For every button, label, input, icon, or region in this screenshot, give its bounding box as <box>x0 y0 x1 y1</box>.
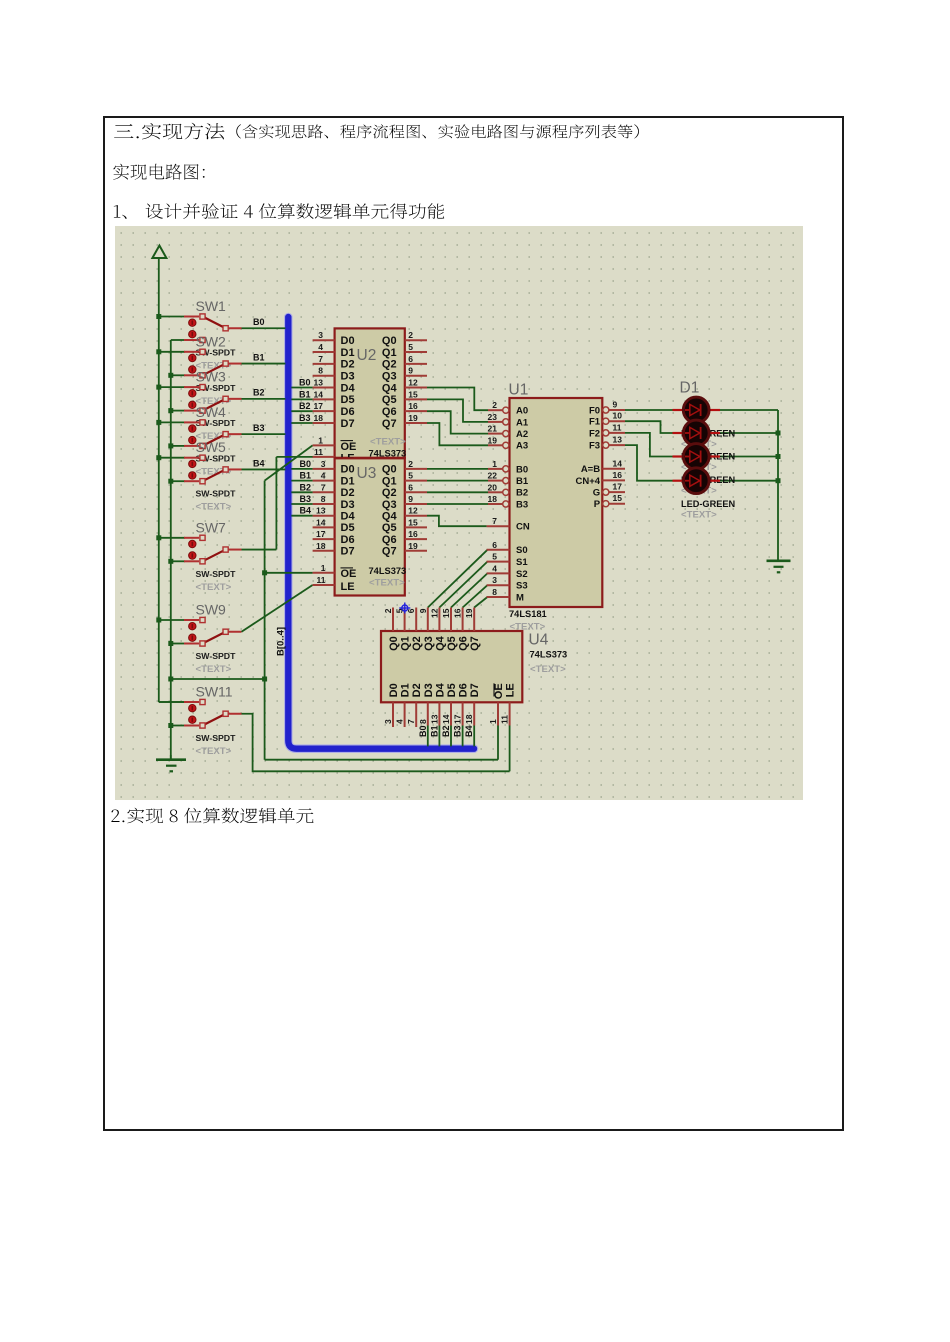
svg-text:1: 1 <box>321 563 326 573</box>
pin U2 D6 (pin 17) <box>313 410 335 412</box>
svg-text:D4: D4 <box>341 382 356 394</box>
pin U1 P (pin 15) <box>603 501 625 507</box>
pin U4 D6 (pin 17) <box>462 702 464 725</box>
svg-text:17: 17 <box>316 529 326 539</box>
junction LED rail row4 <box>776 478 781 483</box>
svg-text:D1: D1 <box>341 347 355 359</box>
pin U4 D7 (pin 18) <box>473 702 475 725</box>
svg-text:B2: B2 <box>253 388 265 398</box>
svg-text:LE: LE <box>505 683 517 697</box>
pin U4 D1 (pin 4) <box>404 702 406 727</box>
pin U2 D4 (pin 13) <box>313 387 335 389</box>
switch SW7 SW-SPDT <box>184 535 242 564</box>
svg-text:D5: D5 <box>446 683 458 697</box>
wire SW1 pole to bus net B0 <box>242 327 286 329</box>
switch SW2 SW-SPDT <box>184 349 242 378</box>
led D1.1 LED-GREEN <box>673 397 721 423</box>
svg-text:5: 5 <box>408 471 413 481</box>
pin U3 Q0 (pin 2) <box>405 468 427 470</box>
svg-text:<TEXT>: <TEXT> <box>196 664 232 675</box>
pin U1 B3 (pin 18) <box>488 501 509 507</box>
svg-text:M: M <box>516 592 524 603</box>
wire U2 LE horizontal <box>276 456 313 458</box>
svg-text:<TEXT>: <TEXT> <box>681 510 717 521</box>
svg-text:B0: B0 <box>299 459 311 469</box>
svg-text:2: 2 <box>492 400 497 410</box>
pin U1 B2 (pin 20) <box>488 489 509 495</box>
wire OE net vertical <box>264 481 266 760</box>
wire OE net to U4 OE <box>265 759 498 761</box>
latch U3 74LS373 body <box>335 458 405 595</box>
svg-text:6: 6 <box>408 354 413 364</box>
svg-text:G: G <box>593 488 600 499</box>
svg-text:Q6: Q6 <box>382 406 397 418</box>
pin U1 G (pin 17) <box>603 489 625 495</box>
wire U1 S0 diagonal to U4 Q3 <box>428 550 488 608</box>
svg-text:13: 13 <box>314 378 324 388</box>
svg-text:SW-SPDT: SW-SPDT <box>196 569 237 579</box>
switch SW1 SW-SPDT <box>184 314 242 343</box>
wire rail A tap to SW1 top throw <box>159 316 185 318</box>
wire OE net diagonal from U2 OE <box>265 445 313 480</box>
pin U3 D4 (pin 13) <box>313 515 335 517</box>
svg-text:Q4: Q4 <box>434 635 446 651</box>
svg-text:A3: A3 <box>516 441 528 452</box>
svg-text:F2: F2 <box>589 428 600 439</box>
svg-text:D2: D2 <box>411 683 423 697</box>
svg-text:19: 19 <box>488 435 498 445</box>
svg-text:S1: S1 <box>516 557 528 568</box>
svg-text:6: 6 <box>408 482 413 492</box>
svg-text:11: 11 <box>314 447 323 457</box>
wire U1 M diagonal to U4 Q7 <box>474 597 487 608</box>
svg-text:<TEXT>: <TEXT> <box>196 502 232 513</box>
bus B[0..4] <box>288 317 474 749</box>
svg-text:13: 13 <box>316 506 326 516</box>
svg-text:9: 9 <box>418 608 428 613</box>
svg-text:14: 14 <box>314 389 324 399</box>
svg-text:2: 2 <box>408 330 413 340</box>
wire bus branch B3 to U3 D3 <box>291 503 312 505</box>
pin U3 Q6 (pin 16) <box>405 538 427 540</box>
svg-text:17: 17 <box>453 714 463 724</box>
svg-text:A2: A2 <box>516 429 528 440</box>
pin U2 D1 (pin 4) <box>313 351 335 353</box>
pin U3 D5 (pin 14) <box>313 526 335 528</box>
svg-text:8: 8 <box>418 719 428 724</box>
svg-text:12: 12 <box>429 608 439 618</box>
svg-text:4: 4 <box>321 471 326 481</box>
svg-text:9: 9 <box>408 366 413 376</box>
svg-text:14: 14 <box>316 517 326 527</box>
led D1.2 LED-GREEN <box>673 420 721 446</box>
svg-text:3: 3 <box>492 575 497 585</box>
svg-text:F0: F0 <box>589 405 600 416</box>
svg-text:SW1: SW1 <box>196 298 227 314</box>
svg-text:5: 5 <box>408 342 413 352</box>
pin U1 S3 (pin 3) <box>487 584 510 586</box>
wire SW7 pole to U2 LE net <box>242 549 277 551</box>
svg-text:2: 2 <box>408 459 413 469</box>
pin U1 F2 (pin 11) <box>603 430 625 436</box>
wire rail A vertical <box>158 258 160 702</box>
pin U1 S1 (pin 5) <box>487 561 510 563</box>
pin U1 M (pin 8) <box>487 596 510 598</box>
pin U3 Q5 (pin 15) <box>405 526 427 528</box>
svg-text:Q1: Q1 <box>382 475 397 487</box>
wire rail A to SW11 <box>159 701 199 703</box>
svg-text:SW11: SW11 <box>196 684 233 700</box>
wire bus branch B0 to U3 D0 <box>291 468 312 470</box>
svg-text:LE: LE <box>341 581 355 593</box>
pin U4 Q6 (pin 16) <box>462 608 464 632</box>
pin U1 F3 (pin 13) <box>603 442 625 448</box>
svg-text:D7: D7 <box>469 683 481 697</box>
table cell border <box>103 116 844 1131</box>
wire rail A tap to SW5 top throw <box>159 457 185 459</box>
svg-text:9: 9 <box>408 494 413 504</box>
svg-text:S0: S0 <box>516 545 528 556</box>
pin U3 D2 (pin 7) <box>313 491 335 493</box>
svg-text:19: 19 <box>408 413 418 423</box>
svg-text:Q6: Q6 <box>458 636 470 651</box>
text line 2: 实现电路图： <box>113 164 204 180</box>
svg-text:Q0: Q0 <box>388 636 400 651</box>
latch U4 74LS373 body (rotated) <box>381 631 522 702</box>
led D1.3 LED-GREEN <box>673 444 721 470</box>
svg-text:Q2: Q2 <box>411 636 423 651</box>
svg-text:A1: A1 <box>516 417 529 428</box>
pin U2 Q5 (pin 15) <box>405 398 427 400</box>
svg-text:11: 11 <box>613 422 622 432</box>
svg-text:B0: B0 <box>253 317 265 327</box>
wire U1 F0 to LED D1.1 <box>625 409 673 411</box>
wire SW4 pole to bus net B3 <box>242 433 286 435</box>
svg-text:D6: D6 <box>458 683 470 697</box>
pin U4 LE (pin 11) <box>509 702 511 725</box>
svg-text:Q3: Q3 <box>382 370 397 382</box>
pin U2 LE (pin 11) <box>313 456 335 458</box>
svg-text:16: 16 <box>613 470 623 480</box>
pin U2 Q3 (pin 9) <box>405 375 427 377</box>
wire rail A tap to SW7 top throw <box>159 537 185 539</box>
pin U3 OE (pin 1) <box>313 572 335 574</box>
wire U1 S2 diagonal to U4 Q5 <box>451 573 487 607</box>
svg-text:11: 11 <box>317 575 326 585</box>
svg-text:13: 13 <box>613 435 623 445</box>
svg-text:7: 7 <box>321 482 326 492</box>
svg-text:1: 1 <box>318 435 323 445</box>
junction rail B OE tie <box>168 677 173 682</box>
svg-text:B3: B3 <box>299 413 311 423</box>
svg-text:SW3: SW3 <box>196 369 227 385</box>
svg-text:Q1: Q1 <box>382 347 397 359</box>
svg-text:D0: D0 <box>388 683 400 697</box>
svg-text:CN+4: CN+4 <box>576 476 601 487</box>
pin U2 D0 (pin 3) <box>313 339 335 341</box>
svg-text:S3: S3 <box>516 581 528 592</box>
pin U1 B0 (pin 1) <box>488 466 509 472</box>
pin U1 A3 (pin 19) <box>488 442 509 448</box>
pin U4 Q1 (pin 5) <box>404 608 406 632</box>
svg-text:D5: D5 <box>341 394 355 406</box>
power arrow symbol <box>152 246 166 259</box>
wire rail B tap to SW5 bottom throw <box>171 480 185 482</box>
svg-text:<TEXT>: <TEXT> <box>196 582 232 593</box>
svg-text:F3: F3 <box>589 441 600 452</box>
pin U4 D0 (pin 3) <box>392 702 394 727</box>
svg-text:B4: B4 <box>253 458 265 468</box>
svg-text:19: 19 <box>408 541 418 551</box>
pin U2 Q0 (pin 2) <box>405 339 427 341</box>
svg-text:B2: B2 <box>441 725 451 737</box>
svg-text:8: 8 <box>492 587 497 597</box>
pin U2 D7 (pin 18) <box>313 422 335 424</box>
wire U2 Q5 to U1 A1 <box>427 399 488 422</box>
wire rail B tap to SW2 bottom throw <box>171 374 185 376</box>
svg-text:18: 18 <box>316 541 326 551</box>
svg-text:F1: F1 <box>589 417 601 428</box>
svg-text:D6: D6 <box>341 534 355 546</box>
svg-text:D5: D5 <box>341 522 355 534</box>
pin U4 D3 (pin 8) <box>427 702 429 725</box>
svg-text:CN: CN <box>516 522 530 533</box>
pin U3 D6 (pin 17) <box>313 538 335 540</box>
wire U1 S3 diagonal to U4 Q6 <box>463 585 488 607</box>
wire U3 Q2 to U1 B2 <box>427 491 488 493</box>
pin U1 S0 (pin 6) <box>487 549 510 551</box>
svg-text:Q1: Q1 <box>400 636 412 651</box>
pin U1 CN (pin 7) <box>487 525 510 527</box>
svg-text:SW-SPDT: SW-SPDT <box>196 651 237 661</box>
svg-text:B[0..4]: B[0..4] <box>276 627 287 656</box>
svg-text:Q5: Q5 <box>446 636 458 651</box>
pin U1 B1 (pin 22) <box>488 478 509 484</box>
pin U4 D5 (pin 14) <box>450 702 452 725</box>
switch SW3 SW-SPDT <box>184 385 242 414</box>
pin U2 D3 (pin 8) <box>313 375 335 377</box>
wire U3 Q1 to U1 B1 <box>427 480 488 482</box>
svg-text:14: 14 <box>613 458 623 468</box>
pin U3 D7 (pin 18) <box>313 550 335 552</box>
svg-text:18: 18 <box>464 714 474 724</box>
pin U1 F0 (pin 9) <box>603 407 625 413</box>
switch SW9 SW-SPDT <box>184 617 242 646</box>
svg-text:Q3: Q3 <box>382 499 397 511</box>
wire rail B tap to SW1 bottom throw <box>171 339 185 341</box>
svg-text:<TEXT>: <TEXT> <box>196 746 232 757</box>
latch U2 74LS373 body <box>335 328 405 457</box>
svg-text:Q0: Q0 <box>382 335 397 347</box>
svg-text:16: 16 <box>453 608 463 618</box>
svg-text:A0: A0 <box>516 406 528 417</box>
led D1.4 LED-GREEN <box>673 468 721 494</box>
svg-text:B2: B2 <box>516 488 528 499</box>
svg-text:74LS373: 74LS373 <box>369 566 407 576</box>
svg-text:7: 7 <box>492 516 497 526</box>
svg-text:13: 13 <box>429 714 439 724</box>
svg-text:3: 3 <box>383 719 393 724</box>
svg-text:D7: D7 <box>341 418 355 430</box>
pin U4 Q7 (pin 19) <box>473 608 475 632</box>
wire SW11 pole jog to U4 LE <box>242 714 510 772</box>
svg-text:12: 12 <box>408 378 418 388</box>
svg-text:18: 18 <box>488 494 498 504</box>
svg-text:Q5: Q5 <box>382 394 397 406</box>
svg-text:74LS373: 74LS373 <box>530 650 568 660</box>
wire U1 F2 to LED D1.3 <box>625 433 673 457</box>
svg-text:20: 20 <box>488 482 498 492</box>
wire bus branch B2 to U2 D6 <box>291 410 312 412</box>
svg-text:8: 8 <box>321 494 326 504</box>
wire SW9 pole diagonal to U3 LE <box>242 585 313 632</box>
schematic background grid <box>115 226 803 800</box>
junction OE net riser <box>262 677 267 682</box>
svg-text:7: 7 <box>406 719 416 724</box>
wire rail B tap to SW7 bottom throw <box>171 560 185 562</box>
svg-text:1: 1 <box>492 459 497 469</box>
svg-text:7: 7 <box>318 354 323 364</box>
svg-text:B2: B2 <box>299 482 311 492</box>
svg-text:11: 11 <box>500 715 510 724</box>
svg-text:B3: B3 <box>253 423 265 433</box>
pin U2 Q7 (pin 19) <box>405 422 427 424</box>
pin U4 D4 (pin 13) <box>438 702 440 725</box>
ground (right) <box>767 561 791 573</box>
ground (left) <box>156 755 186 771</box>
svg-text:<TEXT>: <TEXT> <box>369 578 405 589</box>
svg-text:4: 4 <box>395 719 405 724</box>
svg-text:B0: B0 <box>299 378 311 388</box>
wire U2 LE vertical riser <box>275 457 277 550</box>
wire LED D1.2 cathode to rail <box>720 432 778 434</box>
circuit schematic <box>115 226 803 800</box>
svg-text:3: 3 <box>318 330 323 340</box>
svg-text:B4: B4 <box>464 725 474 737</box>
pin U4 OE (pin 1) <box>497 702 499 725</box>
svg-text:10: 10 <box>613 411 623 421</box>
wire rail B vertical <box>170 340 172 759</box>
svg-text:B0: B0 <box>516 464 528 475</box>
svg-text:14: 14 <box>441 714 451 724</box>
junction OE net at U3 OE row <box>262 570 267 575</box>
pin U3 D0 (pin 3) <box>313 468 335 470</box>
pin U1 A1 (pin 23) <box>488 419 509 425</box>
wire OE net to U3 OE <box>265 572 313 574</box>
svg-text:D7: D7 <box>341 546 355 558</box>
pin U3 Q2 (pin 6) <box>405 491 427 493</box>
svg-text:D0: D0 <box>341 335 355 347</box>
pin U3 D3 (pin 8) <box>313 503 335 505</box>
wire rail A tap to SW11 top throw <box>159 701 185 703</box>
wire rail A tap to SW9 top throw <box>159 619 185 621</box>
svg-text:Q2: Q2 <box>382 487 397 499</box>
svg-text:OE: OE <box>341 568 357 580</box>
svg-text:B1: B1 <box>299 471 311 481</box>
wire LED D1.3 cathode to rail <box>720 456 778 458</box>
wire U2 Q4 to U1 A0 <box>427 388 488 411</box>
pin U4 Q0 (pin 2) <box>392 608 394 632</box>
switch SW11 SW-SPDT <box>184 699 242 728</box>
svg-text:15: 15 <box>441 608 451 618</box>
wire rail A tap to SW4 top throw <box>159 421 185 423</box>
svg-text:19: 19 <box>464 608 474 618</box>
wire bus branch B2 to U3 D2 <box>291 491 312 493</box>
pin U4 Q2 (pin 6) <box>415 608 417 632</box>
svg-text:D3: D3 <box>341 370 355 382</box>
svg-text:SW9: SW9 <box>196 602 227 618</box>
switch SW5 SW-SPDT <box>184 455 242 484</box>
svg-text:SW7: SW7 <box>196 519 227 535</box>
svg-text:74LS181: 74LS181 <box>509 609 547 619</box>
svg-text:P: P <box>594 499 601 510</box>
junction LED rail row3 <box>776 454 781 459</box>
wire U2 Q6 to U1 A2 <box>427 411 488 433</box>
alu U1 74LS181 body <box>510 398 603 607</box>
wire LED D1.1 cathode to rail <box>720 409 778 411</box>
pin U3 Q1 (pin 5) <box>405 480 427 482</box>
wire rail B tap to SW11 bottom throw <box>171 725 185 727</box>
pin U3 Q3 (pin 9) <box>405 503 427 505</box>
svg-text:Q7: Q7 <box>469 636 481 651</box>
svg-text:B1: B1 <box>299 389 311 399</box>
svg-text:Q5: Q5 <box>382 522 397 534</box>
wire SW3 pole to bus net B2 <box>242 398 286 400</box>
wire rail A tap to SW3 top throw <box>159 386 185 388</box>
wire U3 Q0 to U1 B0 <box>427 468 488 470</box>
svg-text:B3: B3 <box>516 499 528 510</box>
pin U1 F1 (pin 10) <box>603 418 625 424</box>
svg-text:2: 2 <box>383 608 393 613</box>
pin U2 Q2 (pin 6) <box>405 363 427 365</box>
svg-text:Q6: Q6 <box>382 534 397 546</box>
switch SW4 SW-SPDT <box>184 420 242 449</box>
svg-text:<TEXT>: <TEXT> <box>370 436 406 447</box>
pin U2 D5 (pin 14) <box>313 398 335 400</box>
wire OE net to rail B <box>171 678 265 680</box>
svg-text:8: 8 <box>318 366 323 376</box>
origin marker <box>399 603 410 614</box>
svg-text:Q7: Q7 <box>382 546 397 558</box>
wire bus branch B1 to U3 D1 <box>291 480 312 482</box>
pin U4 Q3 (pin 9) <box>427 608 429 632</box>
svg-text:B1: B1 <box>516 476 529 487</box>
svg-text:9: 9 <box>613 400 618 410</box>
svg-text:22: 22 <box>488 471 498 481</box>
pin U2 Q4 (pin 12) <box>405 387 427 389</box>
wire bus branch B1 to U2 D5 <box>291 398 312 400</box>
svg-text:A=B: A=B <box>581 464 600 475</box>
svg-text:15: 15 <box>408 517 418 527</box>
svg-text:4: 4 <box>318 342 323 352</box>
wire bus branch B0 to U2 D4 <box>291 387 312 389</box>
pin U2 Q6 (pin 16) <box>405 410 427 412</box>
pin U1 A=B (pin 14) <box>602 468 625 470</box>
svg-text:D3: D3 <box>423 683 435 697</box>
pin U2 OE (pin 1) <box>313 444 335 446</box>
svg-text:<TEXT>: <TEXT> <box>530 664 566 675</box>
svg-text:6: 6 <box>492 540 497 550</box>
pin U2 D2 (pin 7) <box>313 363 335 365</box>
wire U1 F1 to LED D1.2 <box>625 421 673 433</box>
pin U4 Q5 (pin 15) <box>450 608 452 632</box>
svg-text:23: 23 <box>488 412 498 422</box>
junction LED rail row2 <box>776 431 781 436</box>
svg-text:OE: OE <box>493 683 505 699</box>
svg-text:15: 15 <box>408 389 418 399</box>
svg-text:B4: B4 <box>299 506 311 516</box>
svg-text:LED-GREEN: LED-GREEN <box>681 499 735 509</box>
